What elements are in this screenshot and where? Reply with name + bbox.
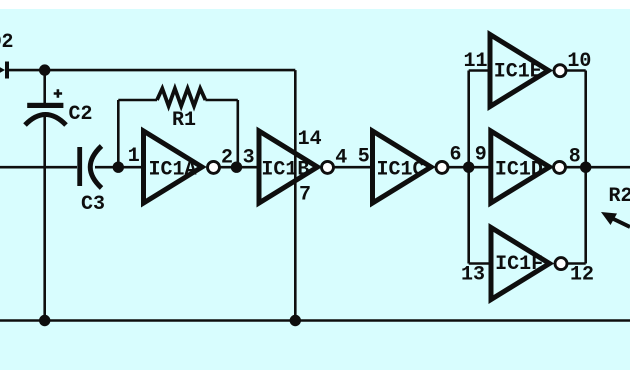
wire input bus vertical: [467, 71, 470, 264]
wire input left: [0, 166, 77, 169]
inverter gate IC1C: [373, 131, 449, 203]
wire feedback top right: [205, 99, 237, 102]
svg-text:5: 5: [358, 145, 370, 168]
wire IC1D output to right edge: [566, 166, 630, 169]
svg-text:3: 3: [243, 147, 255, 170]
wire IC1F output to output bus: [568, 262, 586, 265]
diode D2: [0, 31, 14, 80]
wire feedback right vertical: [237, 100, 240, 167]
wire top rail: [9, 69, 295, 72]
svg-text:11: 11: [464, 50, 488, 73]
wire input bus to IC1F: [469, 262, 491, 265]
wire C2 top stub: [43, 70, 46, 103]
capacitor C2: [25, 89, 93, 126]
node junction power drop / ground rail: [290, 315, 301, 326]
node junction top rail / C2: [39, 64, 50, 75]
wire IC1C output to input bus: [449, 166, 491, 169]
svg-text:6: 6: [450, 143, 462, 166]
wire C2 bottom to ground rail: [43, 117, 46, 321]
svg-text:13: 13: [461, 263, 485, 286]
svg-text:8: 8: [569, 145, 581, 168]
svg-text:IC1E: IC1E: [494, 60, 542, 83]
svg-text:14: 14: [298, 128, 322, 151]
inverter gate IC1F: [491, 228, 567, 300]
svg-text:IC1B: IC1B: [261, 158, 309, 181]
node junction pin6 / pin9 / bus: [463, 162, 474, 173]
resistor R1: [157, 89, 205, 133]
potentiometer R2 wiper arrow: [601, 185, 630, 227]
wire output bus vertical: [584, 71, 587, 264]
svg-text:IC1C: IC1C: [377, 158, 425, 181]
svg-text:IC1A: IC1A: [149, 159, 197, 182]
wire power drop to IC1B pins 14/7: [294, 70, 297, 320]
svg-text:12: 12: [570, 263, 594, 286]
svg-text:R1: R1: [172, 109, 196, 132]
svg-text:7: 7: [299, 183, 311, 206]
svg-text:1: 1: [128, 145, 140, 168]
wire C3 to IC1A input: [95, 166, 143, 169]
svg-text:C3: C3: [81, 193, 105, 216]
node junction pin8 / output bus: [580, 162, 591, 173]
svg-text:C2: C2: [69, 103, 93, 126]
wire feedback top left: [118, 99, 157, 102]
svg-text:IC1F: IC1F: [495, 253, 543, 276]
node junction pin2 / pin3 / feedback: [231, 162, 242, 173]
svg-text:R2: R2: [609, 185, 630, 208]
wire IC1A output to IC1B input: [220, 166, 258, 169]
svg-text:D2: D2: [0, 31, 14, 54]
svg-text:IC1D: IC1D: [495, 158, 543, 181]
inverter gate IC1D: [491, 131, 566, 203]
node junction C2 / ground rail: [39, 315, 50, 326]
wire bottom ground rail: [0, 319, 630, 322]
node junction pin1 / feedback: [113, 162, 124, 173]
svg-text:9: 9: [475, 143, 487, 166]
wire IC1B output to IC1C input: [334, 166, 372, 169]
capacitor C3: [77, 146, 105, 216]
inverter gate IC1E: [490, 35, 566, 107]
wire IC1E output to output bus: [567, 69, 586, 72]
inverter gate IC1A: [144, 131, 220, 203]
wire input bus to IC1E: [469, 69, 490, 72]
wire feedback left vertical: [117, 100, 120, 167]
inverter gate IC1B: [259, 131, 334, 203]
